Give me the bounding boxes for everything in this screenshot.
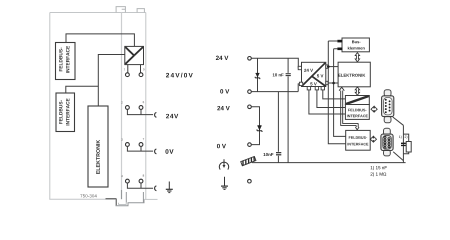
data arrow bus terminals / electronics: [355, 53, 359, 62]
bus terminal wires from electronics supply: [328, 41, 345, 144]
D-sub connector 1 (male): [382, 90, 394, 123]
capacitor 15nF plates: [401, 143, 406, 145]
bus terminal pins: [337, 40, 342, 43]
row 4: earth terminal: [121, 175, 173, 193]
wire: square left to electronics vertical: [98, 55, 125, 107]
converter side tabs: [298, 65, 328, 90]
clamp contact arc: [155, 113, 157, 118]
jumper contacts row 1 (circles): [126, 73, 130, 77]
zener diode symbol 2: [257, 126, 262, 132]
junction dots: [327, 65, 330, 68]
shield connection symbol (circle): [219, 159, 228, 169]
D-sub connector 2 (female): [381, 128, 393, 156]
fieldbus interface box 1: [56, 43, 76, 80]
filter square symbol: [125, 46, 144, 64]
shield wire from D-sub 1: [393, 117, 404, 125]
field pair bracket: [251, 107, 259, 145]
DIN rail clip (dark): [106, 198, 117, 200]
electronics box (left module): [88, 106, 108, 187]
terminal 24V field: [248, 105, 252, 109]
shield wire from D-sub 2: [393, 152, 403, 161]
wire 0V capacitor branch down to shield bus: [287, 92, 289, 163]
fieldbus interface box 2: [56, 93, 75, 132]
wire 5V to electronics (upper): [328, 66, 338, 68]
isolation converter (feldbus interface 1): [345, 96, 369, 105]
capacitor 10nF (shield): [277, 92, 279, 163]
zener diode symbol 1: [255, 73, 260, 79]
terminal 24V system: [248, 57, 252, 61]
chassis / shield flag: [241, 156, 256, 165]
capacitor 10nF (system supply): [287, 58, 289, 91]
part number 750-304: [80, 194, 96, 197]
DIN rail foot: [116, 192, 144, 206]
earth symbol (right schematic): [221, 177, 228, 190]
data arrow feldbus interface 1 / D-sub 1: [371, 107, 377, 112]
resistor 1MOhm: [406, 142, 411, 153]
row 2: 24V field terminal: [121, 101, 178, 118]
contact pin numbers 1 5: [124, 68, 125, 70]
wire to electronics (lower): [328, 82, 338, 84]
data arrow electronics / feldbus interface 1: [355, 87, 359, 95]
earth symbol (module): [166, 182, 173, 193]
wire: box1 top to filter square: [66, 34, 134, 47]
footnote 15nF: [371, 166, 387, 170]
shield drop wire: [402, 125, 404, 162]
row 3: 0V field terminal: [121, 138, 173, 154]
data arrow feldbus interface 2 / D-sub 2: [370, 137, 376, 142]
feeder wires to feldbus interface 1: [309, 90, 346, 114]
wire 0V rail: [251, 84, 299, 92]
suppressor diode branch 1: [257, 58, 259, 91]
terminal 0V system: [248, 90, 252, 94]
RC shield network: [403, 134, 408, 154]
unconnected terminal: [248, 179, 252, 183]
jumper contact stubs row 1: [128, 65, 141, 73]
electronics box (right schematic): [338, 62, 370, 87]
feldbus interface box 2 (right): [346, 130, 371, 150]
supply labels left column: [216, 56, 228, 60]
module body outline: [49, 13, 146, 200]
shield bus wire: [252, 162, 406, 164]
data path electronics to feldbus interface 2: [339, 87, 359, 130]
top mounting bump large: [116, 7, 125, 13]
power jumper rail: [121, 13, 123, 191]
bus terminals box: [337, 38, 369, 52]
top mounting bump small: [137, 9, 144, 13]
wire: box2 top to electronics vertical: [66, 86, 99, 93]
wire 24V rail: [251, 58, 298, 68]
reference marks: [399, 136, 402, 139]
feldbus interface box 1 (right): [345, 105, 369, 120]
footnote 1MOhm: [371, 172, 387, 176]
label 24V/0V: [166, 73, 193, 78]
DC/DC converter 24V/5V: [298, 62, 328, 90]
terminal 0V field: [248, 143, 252, 147]
